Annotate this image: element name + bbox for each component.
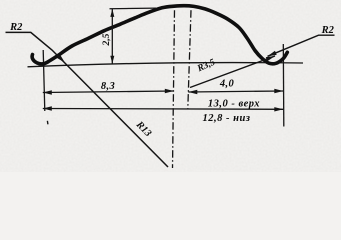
centerline V2 (dash-dot vertical at x=190.8) — [188, 10, 191, 109]
svg-text:R2: R2 — [321, 25, 335, 36]
centerline V1 (dash-dot vertical at x=174) — [173, 10, 175, 168]
svg-text:R2: R2 — [9, 22, 23, 33]
R2 right leader — [268, 35, 335, 56]
scan noise — [0, 0, 1, 1]
left extension line lower dash — [46, 121, 49, 125]
svg-text:8,3: 8,3 — [101, 81, 115, 92]
dimension 8,3 line — [43, 91, 174, 93]
baseline (horizontal tangent line) — [28, 63, 304, 67]
svg-text:2,5: 2,5 — [102, 33, 112, 46]
svg-text:12,8 - низ: 12,8 - низ — [203, 113, 251, 124]
profile curve (thick section outline) — [32, 6, 287, 64]
dimension 2,5 line — [111, 9, 113, 64]
right extension line — [282, 44, 285, 127]
dimension 4,0 line — [188, 91, 283, 92]
left extension line — [43, 50, 45, 111]
R13 arrowhead on curve — [57, 55, 65, 63]
svg-text:13,0 - верх: 13,0 - верх — [208, 98, 260, 109]
dimension 13,0 line — [43, 108, 283, 111]
dimension 2,5 tick — [110, 7, 157, 10]
R2 left leader + R13 radius line — [6, 32, 169, 167]
R3,5 leader — [190, 56, 275, 88]
svg-text:4,0: 4,0 — [219, 79, 235, 90]
top flat tick on arch — [170, 5, 194, 7]
dimension 2,5 arrows — [110, 9, 114, 17]
